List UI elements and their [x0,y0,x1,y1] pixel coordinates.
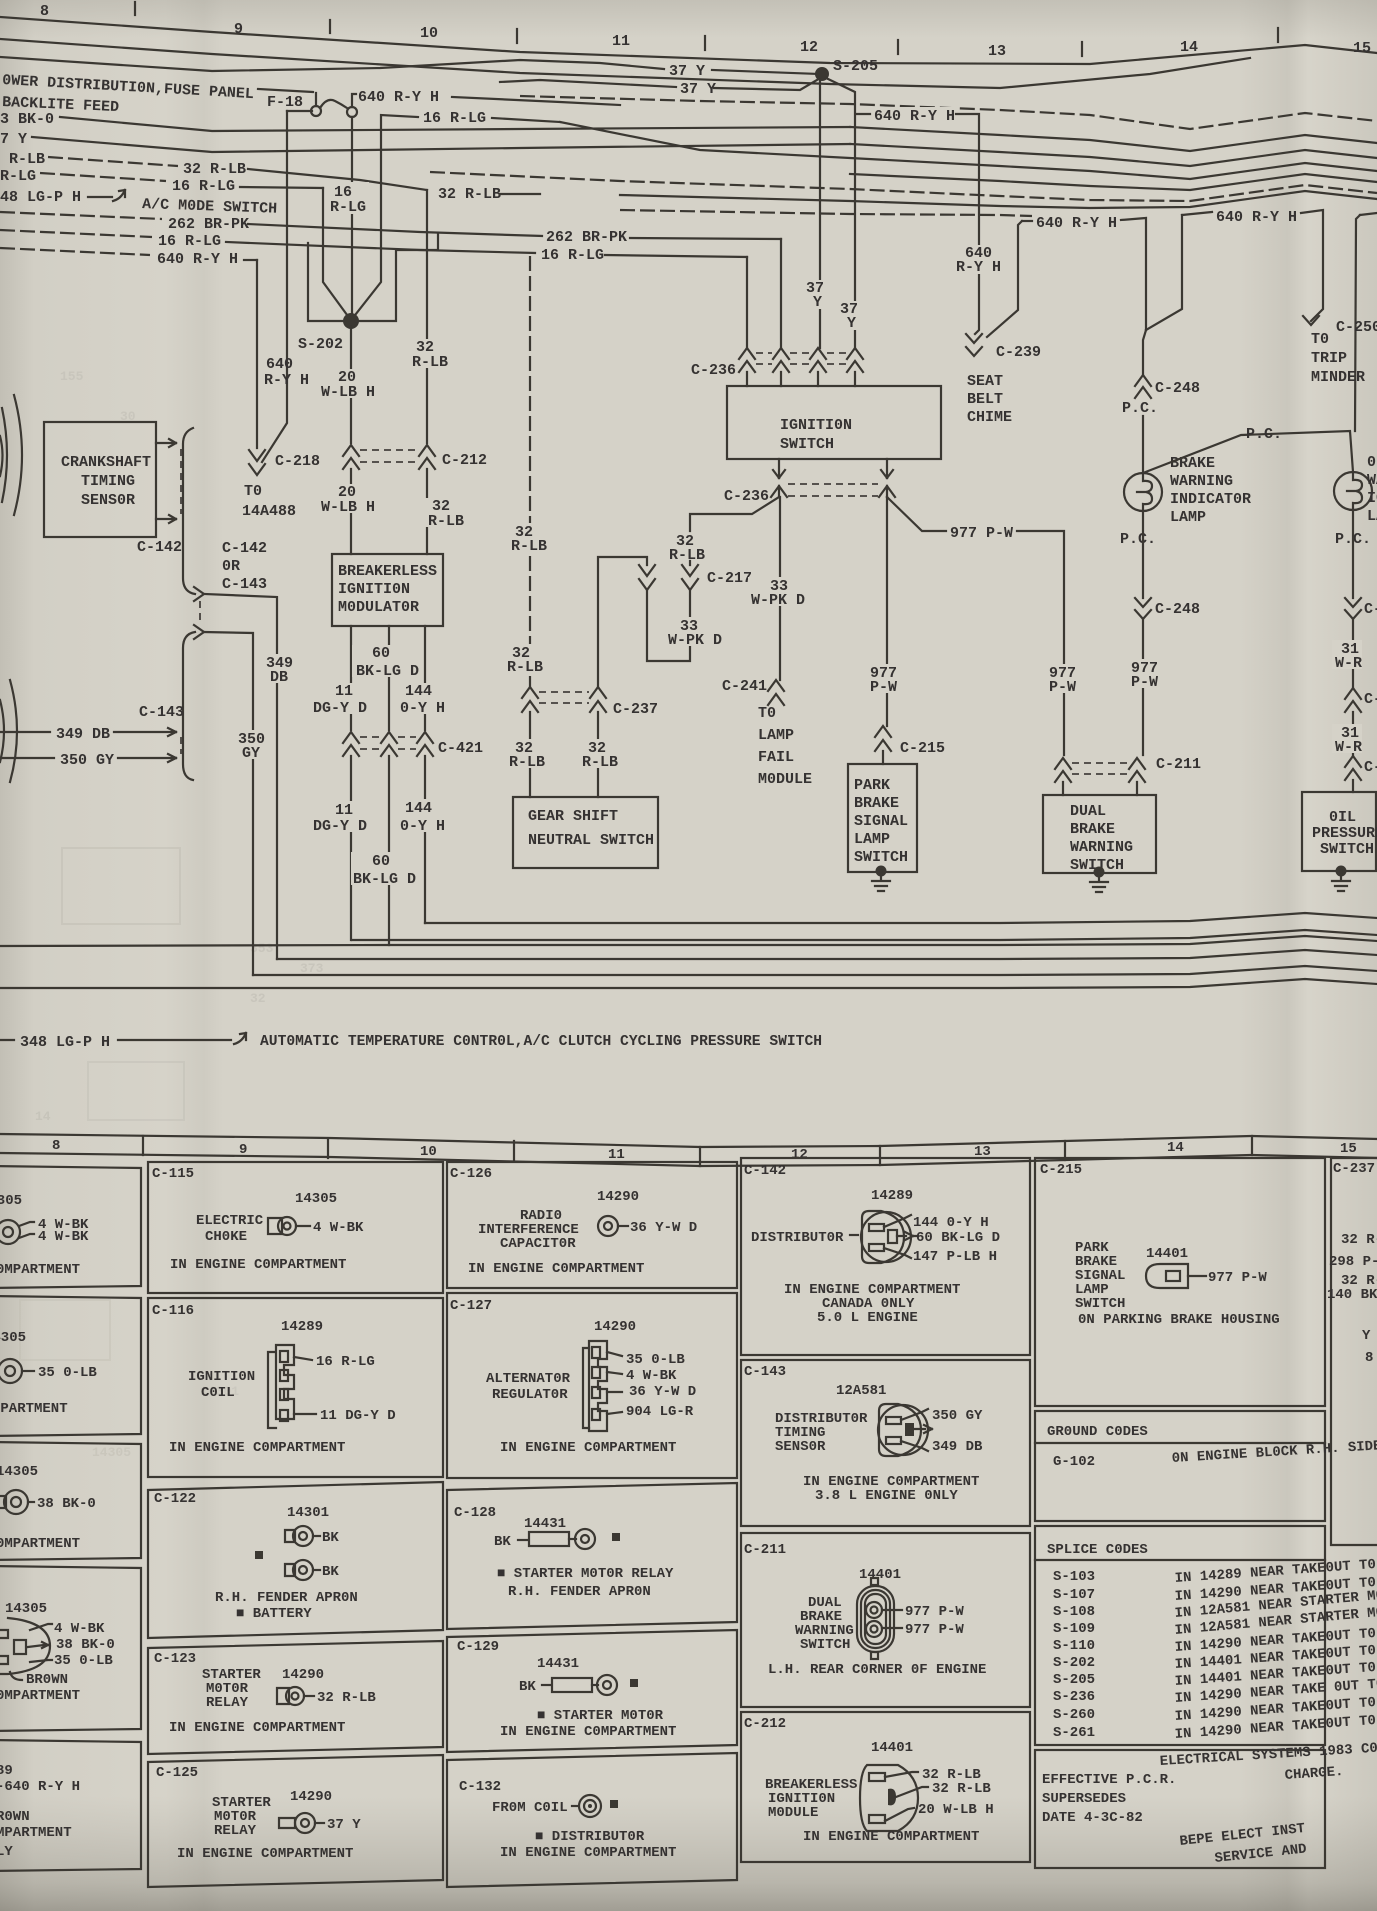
svg-text:LY: LY [0,1844,13,1860]
svg-text:R0WN: R0WN [0,1809,30,1825]
svg-text:FAIL: FAIL [758,749,794,766]
svg-text:W-R: W-R [1335,739,1362,756]
svg-text:MINDER: MINDER [1311,369,1365,386]
svg-text:11: 11 [608,1147,625,1163]
svg-text:14431: 14431 [537,1656,579,1672]
wire 640 R-Y H to C-239 [870,107,956,122]
svg-text:IN ENGINE C0MPARTMENT: IN ENGINE C0MPARTMENT [468,1261,644,1277]
svg-text:144: 144 [405,683,432,700]
svg-text:0MPARTMENT: 0MPARTMENT [0,1536,80,1552]
ruler tick 8-9 [134,2,136,15]
svg-text:SENS0R: SENS0R [775,1439,826,1455]
svg-text:0MPARTMENT: 0MPARTMENT [0,1262,80,1278]
harness bracket [183,428,195,594]
svg-text:36 Y-W D: 36 Y-W D [630,1220,697,1236]
svg-text:M0DULE: M0DULE [758,771,812,788]
svg-text:BK: BK [519,1679,536,1695]
ground codes section [1035,1411,1325,1521]
svg-text:MPARTMENT: MPARTMENT [0,1825,72,1841]
bottom bus line 1 [425,913,1377,923]
svg-text:IN ENGINE C0MPARTMENT: IN ENGINE C0MPARTMENT [500,1440,676,1456]
svg-text:R-LB: R-LB [412,354,448,371]
svg-text:GEAR SHIFT: GEAR SHIFT [528,808,618,825]
svg-text:C-122: C-122 [154,1491,196,1507]
bus wire 4 [560,122,1377,179]
svg-text:298 P-0: 298 P-0 [1329,1254,1377,1270]
svg-text:60: 60 [372,853,390,870]
svg-text:C-248: C-248 [1155,380,1200,397]
wire 640 R-Y H drop to C-218 [256,260,258,448]
svg-text:P.C.: P.C. [1120,531,1156,548]
oil warning lamp [1334,472,1372,510]
svg-text:C-212: C-212 [744,1716,786,1732]
svg-text:C-125: C-125 [156,1765,198,1781]
svg-text:IN ENGINE C0MPARTMENT: IN ENGINE C0MPARTMENT [500,1724,676,1740]
svg-text:14431: 14431 [524,1516,566,1532]
svg-text:C0IL: C0IL [201,1385,235,1401]
svg-text:60: 60 [372,645,390,662]
ruler tick 12-13 [897,40,899,54]
svg-text:14290: 14290 [282,1667,324,1683]
svg-text:R-LB: R-LB [0,151,45,168]
svg-text:C-127: C-127 [450,1298,492,1314]
wire 16 R-LG into C-236 [746,257,748,348]
svg-text:C-2: C-2 [1364,691,1377,708]
cell C-237 right edge [1331,1158,1377,1545]
svg-text:11: 11 [612,33,630,50]
wire down to C-248 [1143,330,1146,375]
svg-text:■ STARTER M0T0R: ■ STARTER M0T0R [537,1708,664,1724]
svg-text:14305: 14305 [295,1191,337,1207]
cell C-123 starter motor relay [148,1641,443,1754]
svg-text:IN ENGINE C0MPARTMENT: IN ENGINE C0MPARTMENT [170,1257,346,1273]
wires into dual brake box [1063,782,1137,795]
svg-text:7 Y: 7 Y [0,131,27,148]
svg-text:NEUTRAL SWITCH: NEUTRAL SWITCH [528,832,654,849]
svg-text:977 P-W: 977 P-W [905,1622,964,1638]
svg-text:S-202: S-202 [1053,1655,1095,1671]
park brake signal lamp switch box [848,764,917,872]
svg-text:C-142: C-142 [744,1163,786,1179]
svg-text:WARNING: WARNING [1070,839,1133,856]
svg-text:SENS0R: SENS0R [81,492,135,509]
svg-text:M0DULAT0R: M0DULAT0R [338,599,419,616]
svg-text:9: 9 [239,1142,247,1158]
svg-text:37 Y: 37 Y [327,1817,361,1833]
svg-text:349 DB: 349 DB [56,726,110,743]
svg-text:W-PK D: W-PK D [668,632,722,649]
svg-text:IGNITI0N: IGNITI0N [780,417,852,434]
ruler tick 10-11 [516,29,518,43]
svg-text:11: 11 [335,802,353,819]
connector C-236 lower [773,459,785,478]
svg-text:SWITCH: SWITCH [854,849,908,866]
svg-text:R-LB: R-LB [507,659,543,676]
svg-text:S-109: S-109 [1053,1621,1095,1637]
wire 16 R-LG elbow to S-202 [323,188,350,319]
svg-text:15: 15 [1340,1141,1357,1157]
svg-text:48 LG-P H: 48 LG-P H [0,189,81,206]
svg-text:G-102: G-102 [1053,1454,1095,1470]
svg-text:147 P-LB H: 147 P-LB H [913,1249,997,1265]
svg-text:4 W-BK: 4 W-BK [313,1220,364,1236]
svg-text:TIMING: TIMING [81,473,135,490]
svg-text:WA: WA [1367,472,1377,489]
svg-text:PRESSURE: PRESSURE [1312,825,1377,842]
svg-text:640 R-Y H: 640 R-Y H [1036,215,1117,232]
svg-text:0-Y H: 0-Y H [400,818,445,835]
brake warning indicator lamp [1124,473,1162,511]
wire 640 R-Y H to C-248 [1121,218,1146,330]
svg-text:CH0KE: CH0KE [205,1229,247,1245]
svg-text:S-205: S-205 [833,58,878,75]
wire 33 W-PK D to C-241 [779,497,781,680]
svg-text:3.8 L ENGINE 0NLY: 3.8 L ENGINE 0NLY [815,1488,958,1504]
svg-text:Y: Y [847,315,856,332]
svg-text:R-LG: R-LG [0,168,36,185]
svg-text:T0: T0 [758,705,776,722]
svg-text:16 R-LG: 16 R-LG [423,110,486,127]
svg-text:-640 R-Y H: -640 R-Y H [0,1779,80,1795]
svg-text:IN ENGINE C0MPARTMENT: IN ENGINE C0MPARTMENT [177,1846,353,1862]
svg-text:640 R-Y H: 640 R-Y H [1216,209,1297,226]
wire 32 R-LB dashed to C-237 [529,256,531,687]
svg-text:C-143: C-143 [222,576,267,593]
svg-text:140 BK-: 140 BK- [1327,1287,1377,1303]
svg-text:14305: 14305 [92,1445,131,1460]
wire P.C. across top [1143,431,1353,473]
connector C-250 [1303,316,1319,325]
svg-text:AUT0MATIC TEMPERATURE C0NTR0L,: AUT0MATIC TEMPERATURE C0NTR0L,A/C CLUTCH… [260,1033,822,1050]
svg-text:11 DG-Y D: 11 DG-Y D [320,1408,396,1424]
wire 350 GY from bracket [204,632,253,975]
connector C-218 [249,450,265,475]
bottom bus line 4 [277,950,1377,959]
ground dual brake [1094,867,1105,878]
svg-text:SWITCH: SWITCH [800,1637,850,1653]
wire 32 R-LB below C-212 [426,469,428,554]
svg-text:R-LB: R-LB [509,754,545,771]
svg-text:640 R-Y H: 640 R-Y H [874,108,955,125]
svg-text:S-108: S-108 [1053,1604,1095,1620]
svg-text:DG-Y D: DG-Y D [313,818,367,835]
svg-text:C-128: C-128 [454,1505,496,1521]
svg-text:R-LB: R-LB [511,538,547,555]
svg-text:DISTRIBUT0R: DISTRIBUT0R [751,1230,844,1246]
connector C-248 lower [1135,598,1151,619]
svg-text:BRAKE: BRAKE [854,795,899,812]
cell A1 ring terminal 14305 [0,1166,141,1288]
cell C-115 electric choke [148,1162,443,1293]
wire 349 DB from bracket [204,594,277,959]
svg-text:C-217: C-217 [707,570,752,587]
crankshaft timing sensor box [44,422,156,537]
svg-text:P.C.: P.C. [1246,426,1282,443]
svg-text:CHIME: CHIME [967,409,1012,426]
cell C-127 alternator regulator [447,1293,737,1478]
svg-text:R.H. FENDER APR0N: R.H. FENDER APR0N [215,1590,358,1606]
svg-text:C-215: C-215 [900,740,945,757]
svg-text:155: 155 [60,369,84,384]
connector C-248 upper [1135,375,1151,398]
svg-text:M0DULE: M0DULE [768,1805,818,1821]
svg-text:35 0-LB: 35 0-LB [38,1365,97,1381]
svg-text:SWITCH: SWITCH [1075,1296,1125,1312]
svg-text:37 Y: 37 Y [669,63,705,80]
svg-text:ELECTRIC: ELECTRIC [196,1213,264,1229]
dual brake warning switch box [1043,795,1156,873]
C-236 pins into box [747,372,855,386]
wire 640 vertical from fuse area to C-218 [262,111,287,462]
svg-text:14301: 14301 [287,1505,329,1521]
svg-text:C-24: C-24 [1364,601,1377,618]
cell C-132 distributor [447,1753,737,1887]
svg-text:C-236: C-236 [724,488,769,505]
svg-text:FR0M C0IL: FR0M C0IL [492,1800,568,1816]
svg-text:BK: BK [494,1534,511,1550]
svg-text:C-237: C-237 [613,701,658,718]
svg-text:Y: Y [1362,1328,1371,1344]
svg-text:373: 373 [300,961,324,976]
svg-text:977 P-W: 977 P-W [905,1604,964,1620]
svg-text:977 P-W: 977 P-W [1208,1270,1267,1286]
splice S-202 [343,313,359,329]
wires below C-421 [350,756,352,940]
svg-text:BR0WN: BR0WN [26,1672,68,1688]
svg-text:14: 14 [1167,1140,1184,1156]
svg-text:WARNING: WARNING [1170,473,1233,490]
left component circle fragment top [14,395,22,515]
wire right edge 640 stub [1360,213,1377,215]
svg-text:350 GY: 350 GY [60,752,114,769]
svg-text:BK: BK [322,1530,339,1546]
svg-text:CRANKSHAFT: CRANKSHAFT [61,454,151,471]
svg-text:C-239: C-239 [996,344,1041,361]
svg-text:15: 15 [1353,40,1371,57]
svg-text:EFFECTIVE P.C.R.: EFFECTIVE P.C.R. [1042,1772,1176,1788]
svg-text:C-132: C-132 [459,1779,501,1795]
bottom bus line 5 [253,966,1377,975]
svg-text:12: 12 [791,1147,808,1163]
svg-text:SEAT: SEAT [967,373,1003,390]
ground oil pressure [1336,866,1347,877]
cell C-128 starter motor relay cable [447,1483,737,1629]
svg-text:20 W-LB H: 20 W-LB H [918,1802,994,1818]
connector C-237 [522,687,538,712]
svg-text:4 W-BK: 4 W-BK [38,1229,89,1245]
ignition switch box [727,386,941,459]
svg-text:INDICAT0R: INDICAT0R [1170,491,1251,508]
border line 2 [0,39,1250,88]
ruler tick 11-12 [704,36,706,50]
svg-text:262 BR-PK: 262 BR-PK [546,229,627,246]
svg-text:BK: BK [322,1564,339,1580]
bus wire 3 [850,144,1377,166]
cell A5 14289 [0,1740,141,1871]
svg-text:T0: T0 [1311,331,1329,348]
svg-text:16 R-LG: 16 R-LG [316,1354,375,1370]
svg-text:14289: 14289 [871,1188,913,1204]
svg-text:P-W: P-W [870,679,897,696]
bottom bus line 6 [0,979,1377,988]
cell A2 ring terminal 14305 [0,1296,141,1436]
svg-text:DUAL: DUAL [1070,803,1106,820]
svg-text:32 R-LB: 32 R-LB [183,161,246,178]
svg-text:12: 12 [800,39,818,56]
svg-text:89: 89 [0,1763,13,1779]
svg-text:BREAKERLESS: BREAKERLESS [338,563,437,580]
svg-text:IN ENGINE C0MPARTMENT: IN ENGINE C0MPARTMENT [500,1845,676,1861]
svg-text:16 R-LG: 16 R-LG [172,178,235,195]
svg-text:C-143: C-143 [139,704,184,721]
wire 640 R-Y H 4 [1146,215,1182,330]
svg-text:R-Y H: R-Y H [956,259,1001,276]
svg-text:C-116: C-116 [152,1303,194,1319]
svg-text:LAMP: LAMP [1170,509,1206,526]
svg-text:ALTERNAT0R: ALTERNAT0R [486,1371,571,1387]
wire 262 BR-PK [0,212,162,219]
bottom bus line 2 [352,930,1377,940]
svg-text:14: 14 [35,1109,51,1124]
svg-text:350 GY: 350 GY [932,1408,983,1424]
svg-text:DATE 4-3C-82: DATE 4-3C-82 [1042,1810,1143,1826]
svg-text:0-Y H: 0-Y H [400,700,445,717]
svg-text:■ STARTER M0T0R RELAY: ■ STARTER M0T0R RELAY [497,1566,674,1582]
svg-text:RELAY: RELAY [214,1823,257,1839]
svg-text:IN ENGINE C0MPARTMENT: IN ENGINE C0MPARTMENT [169,1440,345,1456]
bus wire 5 [850,174,1377,190]
svg-text:P-W: P-W [1131,674,1158,691]
svg-text:W-PK D: W-PK D [751,592,805,609]
svg-text:R-LG: R-LG [330,199,366,216]
svg-text:0I: 0I [1367,454,1377,471]
ruler tick 9-10 [329,20,331,33]
svg-text:F-18: F-18 [267,94,303,111]
svg-text:R-LB: R-LB [428,513,464,530]
svg-text:32 R-LB: 32 R-LB [317,1690,376,1706]
gear shift neutral switch box [513,797,658,868]
svg-text:11: 11 [335,683,353,700]
svg-text:P-W: P-W [1049,679,1076,696]
svg-text:BELT: BELT [967,391,1003,408]
svg-text:BK-LG D: BK-LG D [356,663,419,680]
svg-text:R.H. FENDER APR0N: R.H. FENDER APR0N [508,1584,651,1600]
svg-text:C-218: C-218 [275,453,320,470]
svg-text:32 R-: 32 R- [1341,1232,1377,1248]
wires below modulator [350,626,352,730]
svg-text:640 R-Y H: 640 R-Y H [157,251,238,268]
chevrons C-142/C-143 [194,587,204,601]
wire 37 Y lower [500,80,676,87]
svg-text:LA: LA [1367,508,1377,525]
ground park brake [876,866,887,877]
svg-text:14305: 14305 [0,1330,26,1346]
svg-text:BRAKE: BRAKE [1170,455,1215,472]
svg-text:10: 10 [420,1144,437,1160]
wire 32 R-LB C-237 up loop [598,557,647,687]
svg-text:R-LB: R-LB [582,754,618,771]
top ruler line [0,17,1377,64]
svg-text:SWITCH: SWITCH [1320,841,1374,858]
svg-text:4 W-BK: 4 W-BK [626,1368,677,1384]
ruler tick 13-14 [1081,42,1083,56]
svg-text:C-236: C-236 [691,362,736,379]
svg-text:0N PARKING BRAKE H0USING: 0N PARKING BRAKE H0USING [1078,1312,1280,1328]
svg-text:IC: IC [1367,490,1377,507]
bus wire 2 [850,127,1377,151]
bus wire 7 [620,191,1377,208]
svg-text:L.H. REAR C0RNER 0F ENGINE: L.H. REAR C0RNER 0F ENGINE [768,1662,986,1678]
svg-text:35 0-LB: 35 0-LB [626,1352,685,1368]
table ruler band [0,1134,1377,1147]
svg-text:C-215: C-215 [1040,1162,1082,1178]
svg-text:349 DB: 349 DB [932,1439,983,1455]
svg-text:14401: 14401 [871,1740,913,1756]
svg-text:0IL: 0IL [1329,809,1356,826]
ghost bleed-through box left [62,848,180,924]
svg-text:16 R-LG: 16 R-LG [541,247,604,264]
connector C-217 pair [639,565,655,590]
svg-text:SUPERSEDES: SUPERSEDES [1042,1791,1126,1807]
cell C-116 ignition coil [148,1298,443,1477]
svg-text:C-211: C-211 [744,1542,786,1558]
svg-text:P.C.: P.C. [1122,400,1158,417]
bus wire 1 dashed top [520,96,1377,129]
cell C-122 battery cables [148,1482,443,1638]
svg-text:60 BK-LG D: 60 BK-LG D [916,1230,1000,1246]
wire to trip minder C-250 [1301,210,1323,321]
wire 262 BR-PK into C-236 [780,239,782,348]
svg-text:R-Y H: R-Y H [264,372,309,389]
svg-text:8: 8 [40,3,49,20]
connector C-236 upper [739,348,755,372]
svg-text:977 P-W: 977 P-W [950,525,1013,542]
svg-text:GY: GY [242,745,260,762]
svg-text:IGNITI0N: IGNITI0N [188,1369,255,1385]
svg-text:640 R-Y H: 640 R-Y H [358,89,439,106]
svg-text:S-205: S-205 [1053,1672,1095,1688]
svg-text:C-123: C-123 [154,1651,196,1667]
svg-text:5.0 L ENGINE: 5.0 L ENGINE [817,1310,918,1326]
wire 20 W-LB H from S-202 [350,327,352,443]
svg-text:C-237: C-237 [1333,1161,1375,1177]
svg-text:9: 9 [234,21,243,38]
wire 33 W-PK D loop [647,590,690,661]
cell C-215 park brake signal lamp switch [1035,1158,1325,1406]
svg-text:14401: 14401 [859,1567,901,1583]
svg-text:MPARTMENT: MPARTMENT [0,1401,68,1417]
svg-text:32 R-LB: 32 R-LB [932,1781,991,1797]
svg-text:S-110: S-110 [1053,1638,1095,1654]
svg-text:0MPARTMENT: 0MPARTMENT [0,1688,80,1704]
cell C-143 distributor timing sensor [741,1360,1030,1526]
svg-text:35 0-LB: 35 0-LB [54,1653,113,1669]
wire fuse right down to S-202 [351,117,353,316]
svg-text:38 BK-0: 38 BK-0 [56,1637,115,1653]
svg-text:RELAY: RELAY [206,1695,249,1711]
svg-text:IN ENGINE C0MPARTMENT: IN ENGINE C0MPARTMENT [803,1829,979,1845]
svg-text:C-126: C-126 [450,1166,492,1182]
svg-text:DG-Y D: DG-Y D [313,700,367,717]
wires C-237 to gear shift box [529,712,531,797]
svg-text:CAPACIT0R: CAPACIT0R [500,1236,576,1252]
svg-text:14289: 14289 [281,1319,323,1335]
svg-text:W-LB H: W-LB H [321,499,375,516]
wire 977 P-W left down [886,497,888,726]
cell C-212 breakerless ignition module [741,1712,1030,1862]
svg-text:37 Y: 37 Y [680,81,716,98]
wire 349 DB into bracket [0,731,50,733]
